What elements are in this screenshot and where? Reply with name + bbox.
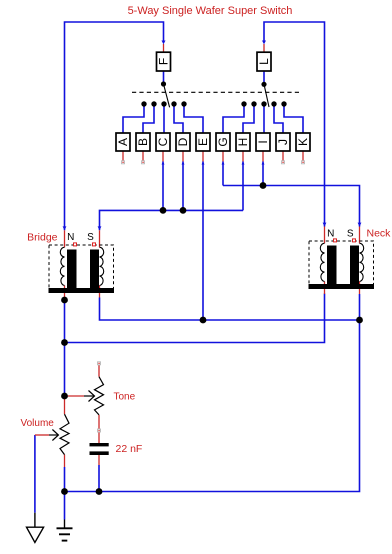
svg-text:I: I <box>256 140 270 143</box>
svg-text:L: L <box>257 58 271 65</box>
svg-text:F: F <box>157 58 171 65</box>
svg-text:Volume: Volume <box>21 418 55 429</box>
svg-text:J: J <box>276 139 290 145</box>
svg-text:G: G <box>216 137 230 146</box>
svg-text:Tone: Tone <box>114 392 136 403</box>
svg-text:S: S <box>87 232 94 243</box>
svg-text:Bridge: Bridge <box>27 232 58 244</box>
svg-text:A: A <box>116 138 130 146</box>
svg-text:D: D <box>176 137 190 146</box>
svg-text:Neck: Neck <box>367 228 392 240</box>
svg-text:N: N <box>327 229 334 240</box>
svg-text:B: B <box>136 138 150 146</box>
svg-text:5-Way Single Wafer Super Switc: 5-Way Single Wafer Super Switch <box>128 5 293 17</box>
svg-text:22 nF: 22 nF <box>116 443 143 455</box>
svg-text:N: N <box>67 232 74 243</box>
svg-text:H: H <box>236 138 250 147</box>
svg-text:C: C <box>156 137 170 146</box>
svg-text:E: E <box>196 138 210 146</box>
svg-text:S: S <box>347 229 354 240</box>
svg-text:K: K <box>296 138 310 146</box>
